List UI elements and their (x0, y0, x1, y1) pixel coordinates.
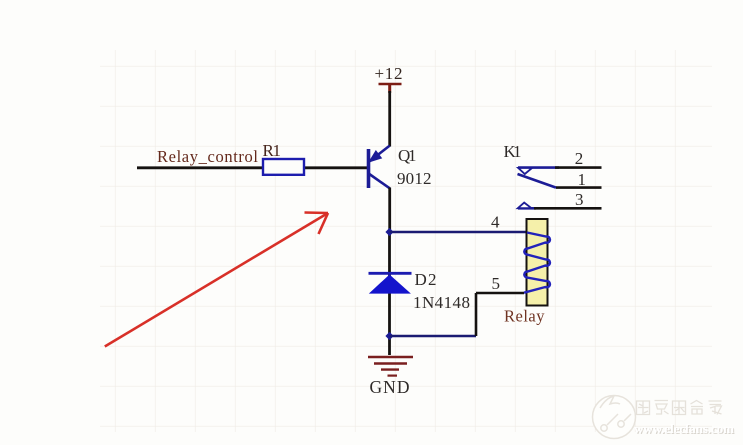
relay contact line 2 (518, 166, 559, 169)
wire pin5 vertical (475, 293, 478, 336)
watermark chinese text (637, 401, 722, 415)
svg-text:5: 5 (492, 274, 501, 293)
relay pivot arrow bottom (518, 203, 532, 209)
wire pin5 to coil (476, 292, 524, 295)
svg-text:GND: GND (370, 377, 410, 397)
svg-text:4: 4 (491, 213, 500, 232)
svg-text:9012: 9012 (397, 169, 432, 188)
wire pin5 bottom horizontal (390, 335, 477, 338)
relay arm diagonal (518, 174, 557, 188)
transistor Q1 (369, 146, 390, 189)
svg-text:www.elecfans.com: www.elecfans.com (634, 421, 734, 436)
wire input horizontal left segment (137, 166, 262, 169)
watermark logo circle (593, 396, 636, 439)
svg-text:K1: K1 (504, 142, 522, 161)
svg-text:+12: +12 (375, 64, 403, 83)
relay contact line 1 (556, 186, 602, 189)
relay contact line 3 (518, 207, 536, 210)
diode D2 (369, 273, 412, 293)
wire collector vertical (388, 188, 391, 233)
svg-text:D2: D2 (415, 270, 437, 289)
svg-text:Q1: Q1 (398, 146, 417, 165)
relay pivot arrow top (518, 168, 532, 174)
ground (368, 357, 413, 376)
relay coil body (527, 219, 548, 306)
power +12 bar (379, 83, 402, 86)
svg-text:1N4148: 1N4148 (413, 293, 470, 312)
svg-text:3: 3 (575, 190, 584, 209)
svg-text:Relay: Relay (504, 307, 545, 326)
relay coil winding (524, 233, 550, 293)
wire collector node to diode and ground (388, 232, 391, 355)
red annotation arrow (105, 213, 328, 347)
node junction pin5 (385, 332, 393, 340)
svg-text:2: 2 (575, 149, 584, 168)
svg-text:Relay_control: Relay_control (157, 147, 258, 166)
resistor R1 (263, 159, 304, 175)
wire pin4 horizontal (390, 231, 528, 234)
power stub (388, 84, 391, 93)
wire emitter vertical (388, 91, 391, 147)
wire resistor to transistor base (305, 166, 368, 169)
node junction pin4 (385, 228, 393, 236)
svg-text:R1: R1 (263, 141, 282, 160)
svg-text:1: 1 (578, 170, 587, 189)
